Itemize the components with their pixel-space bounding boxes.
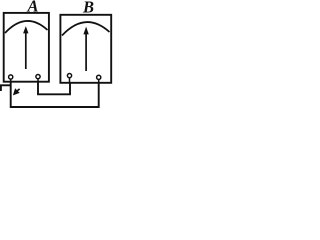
meter B terminal 1 bbox=[67, 74, 71, 78]
wire A1 down to bottom rail, across, up to B2 bbox=[11, 82, 99, 107]
meter B scale arc bbox=[62, 22, 110, 35]
meter B body bbox=[60, 15, 111, 83]
wire A2 to B1 (U link) bbox=[38, 82, 70, 94]
meter A body bbox=[4, 13, 49, 82]
meter A scale arc bbox=[5, 21, 48, 33]
meter B terminal 2 bbox=[97, 75, 101, 79]
wire stub down left edge bbox=[0, 85, 2, 91]
current direction arrowhead at A1 wire bbox=[13, 88, 20, 95]
meter B needle bbox=[85, 34, 87, 72]
meter A terminal 2 bbox=[36, 75, 40, 79]
wire stub from left edge into node at A1 bbox=[0, 84, 11, 86]
meter A needle bbox=[25, 32, 27, 70]
meter A terminal 1 bbox=[9, 75, 13, 79]
